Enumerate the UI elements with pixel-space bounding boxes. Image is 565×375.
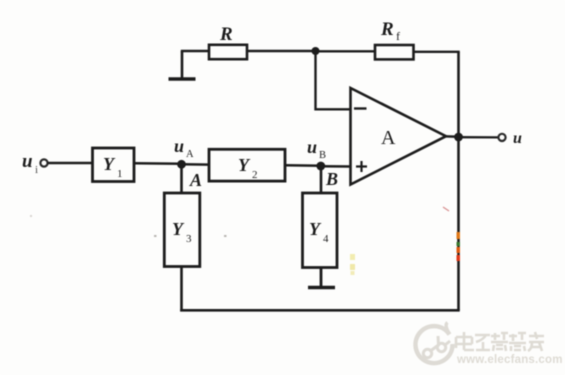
op-amp A [351, 88, 447, 185]
svg-text:u: u [307, 137, 317, 157]
wire Rf to right corner [414, 51, 460, 53]
admittance Y4 [303, 193, 338, 268]
svg-text:2: 2 [252, 169, 258, 181]
resistor R [209, 45, 247, 59]
wire Y2 to node B [285, 164, 321, 167]
svg-text:3: 3 [186, 233, 192, 245]
admittance Y2 [209, 149, 285, 181]
svg-text:1: 1 [117, 168, 123, 180]
svg-text:B: B [325, 169, 338, 189]
op-amp plus sign [356, 161, 367, 172]
wire Y1 to node A [134, 162, 182, 165]
junction node (top) [312, 47, 320, 55]
resistor Rf [375, 45, 414, 59]
svg-text:f: f [396, 29, 400, 43]
watermark text 电子发烧友 (glyph approximation) [456, 332, 544, 351]
svg-text:u: u [22, 151, 33, 172]
admittance Y1 [93, 148, 135, 182]
watermark logo circle [416, 323, 453, 364]
right vertical wire (feedback/output rail) [457, 52, 460, 311]
wire Y4 to ground [320, 268, 323, 288]
output terminal u [498, 134, 505, 141]
bottom rail wire [180, 309, 460, 312]
wire output node to terminal [459, 136, 499, 138]
admittance Y3 [164, 193, 200, 267]
ground (top left) [169, 51, 196, 79]
svg-text:A: A [189, 170, 202, 190]
wire op-amp output to node [446, 135, 459, 138]
svg-text:u: u [174, 136, 184, 156]
svg-text:R: R [219, 24, 233, 45]
wire Y3 to bottom rail [180, 267, 183, 312]
svg-text:4: 4 [323, 233, 329, 245]
color artifacts on right wire [350, 207, 460, 275]
wire ui to Y1 [48, 162, 93, 165]
svg-text:u: u [513, 130, 522, 147]
wire node B to + input [321, 165, 351, 168]
wire node B down to Y4 [320, 166, 323, 193]
wire node A to Y2 [182, 163, 210, 166]
scan speckles [30, 215, 227, 247]
wire R to junction [247, 50, 316, 52]
wire ground to R [181, 50, 209, 52]
wire junction down to inverting input [316, 51, 351, 109]
ground (bottom) [308, 286, 335, 290]
svg-text:A: A [186, 149, 194, 160]
svg-text:i: i [35, 164, 38, 176]
output node [454, 133, 463, 142]
op-amp minus sign [354, 107, 367, 109]
wire node A down to Y3 [180, 164, 183, 193]
svg-text:www.elecfans.com: www.elecfans.com [456, 354, 563, 366]
node A [177, 160, 186, 169]
svg-text:R: R [380, 19, 394, 40]
node B [316, 162, 325, 171]
wire junction to Rf [316, 50, 376, 52]
svg-text:A: A [381, 127, 396, 149]
svg-text:B: B [319, 150, 326, 161]
